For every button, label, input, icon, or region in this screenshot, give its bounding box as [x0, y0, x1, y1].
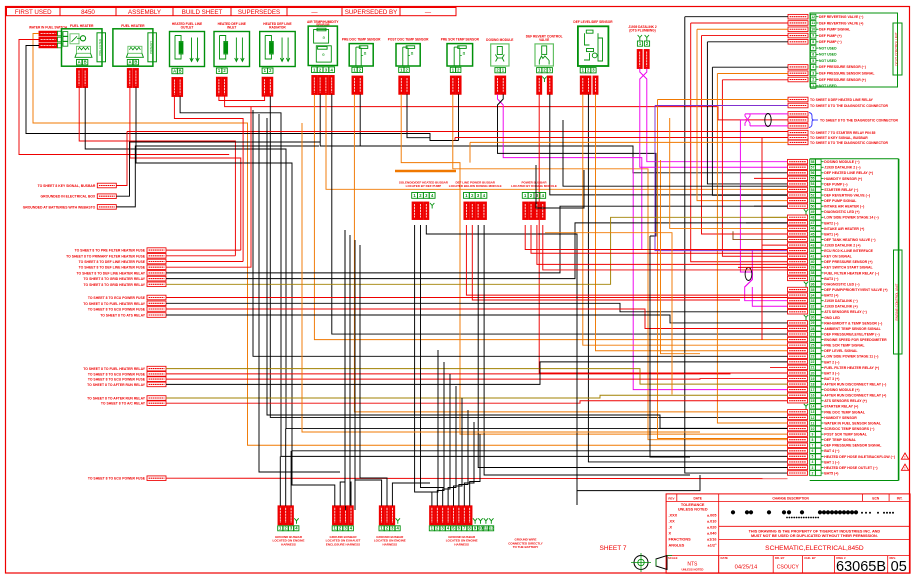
svg-text:TO SHEET 8 TO DEF LINE HEATER: TO SHEET 8 TO DEF LINE HEATER FUSE: [79, 266, 146, 270]
pre scr temp sensor: [441, 38, 480, 95]
svg-text:Ω: Ω: [411, 52, 414, 56]
svg-text:CSOUCY: CSOUCY: [777, 565, 800, 571]
wire orange C13a: [583, 94, 788, 345]
svg-text:DOSING MODULE (−): DOSING MODULE (−): [824, 160, 859, 164]
wire black gb2a: [292, 451, 335, 506]
svg-text:DEF TANK HEATING VALVE (−): DEF TANK HEATING VALVE (−): [824, 238, 875, 242]
svg-text:22: 22: [811, 360, 815, 364]
svg-text:PRE SCR TEMP SIGNAL: PRE SCR TEMP SIGNAL: [824, 344, 865, 348]
wire red C5a: [219, 96, 265, 100]
svg-text:TO SHEET 7 TO STARTER RELAY PI: TO SHEET 7 TO STARTER RELAY PIN 85: [810, 131, 875, 135]
svg-text:8: 8: [812, 40, 814, 44]
svg-text:47: 47: [811, 221, 815, 225]
heated def line radiator: [260, 22, 296, 96]
wire red C4: [174, 97, 243, 262]
svg-text:52: 52: [811, 193, 815, 197]
svg-text:04/25/14: 04/25/14: [735, 565, 758, 571]
svg-text:PRE DOC TEMP SENSOR: PRE DOC TEMP SENSOR: [342, 38, 381, 42]
svg-text:NOT USED: NOT USED: [819, 59, 837, 63]
svg-text:FIRST USED: FIRST USED: [15, 9, 52, 16]
svg-text:TO SHEET 8 TO THE DIAGNOSTIC C: TO SHEET 8 TO THE DIAGNOSTIC CONNECTOR: [810, 141, 889, 145]
svg-text:DEF PUMP (+): DEF PUMP (+): [819, 34, 842, 38]
wire brown meshAv: [733, 231, 788, 239]
svg-text:RH/HUMIDITY & TEMP SENSOR (−): RH/HUMIDITY & TEMP SENSOR (−): [824, 321, 882, 325]
svg-text:18: 18: [811, 382, 815, 386]
svg-text:DR. BY: DR. BY: [775, 556, 785, 560]
svg-text:28: 28: [811, 327, 815, 331]
svg-text:—: —: [425, 9, 432, 16]
wire orange C8a: [354, 94, 787, 412]
svg-text:41: 41: [811, 255, 815, 259]
svg-text:UNLESS NOTED: UNLESS NOTED: [678, 507, 708, 511]
wire orange RT1v: [658, 100, 788, 439]
svg-text:ECU RC0 K-LINE INTERFACE: ECU RC0 K-LINE INTERFACE: [824, 249, 873, 253]
wire black mesh8: [349, 235, 351, 515]
wire black gb4-1: [432, 350, 438, 506]
svg-text:DEF LEVEL/DEF SENSOR: DEF LEVEL/DEF SENSOR: [573, 20, 613, 24]
svg-text:A: A: [128, 60, 131, 65]
wire red bbC1: [525, 225, 787, 250]
svg-text:NOT USED: NOT USED: [819, 46, 837, 50]
svg-text:REV: REV: [668, 496, 674, 500]
wire black meshB1: [536, 165, 584, 208]
svg-text:HEATED DEF HOSE INLET/BACKFLOW: HEATED DEF HOSE INLET/BACKFLOW (−): [824, 455, 895, 459]
wire orange meshO2: [661, 160, 701, 354]
svg-text:DIAGNOSTIC LED (−): DIAGNOSTIC LED (−): [824, 282, 859, 286]
svg-text:58: 58: [811, 160, 815, 164]
svg-text:TO SHEET 8 TO PRE FILTER HEATE: TO SHEET 8 TO PRE FILTER HEATER FUSE: [75, 249, 146, 253]
svg-text:BAT 3 (−): BAT 3 (−): [824, 371, 839, 375]
sheet labels group3: [83, 295, 166, 317]
svg-text:NTS: NTS: [687, 561, 698, 567]
svg-text:Ω: Ω: [463, 52, 466, 56]
svg-text:TO SHEET 8 TO ECU POWER FUSE: TO SHEET 8 TO ECU POWER FUSE: [88, 308, 146, 312]
wire red FH1: [79, 88, 235, 256]
mid busbar C: [511, 180, 557, 219]
svg-text:HARNESS: HARNESS: [382, 542, 397, 546]
svg-text:TO SHEET 8 TO GRID HEATER RELA: TO SHEET 8 TO GRID HEATER RELAY: [84, 283, 146, 287]
wire black gb3c: [392, 483, 430, 506]
wire magenta RT3: [745, 113, 788, 115]
svg-text:FRACTIONS: FRACTIONS: [669, 537, 692, 541]
ground busbar 2: [326, 506, 361, 547]
svg-text:TO SHEET 8 TO DEF LINE HEATER: TO SHEET 8 TO DEF LINE HEATER RELAY: [77, 271, 146, 275]
svg-text:DCU5 CONTROL UNIT: DCU5 CONTROL UNIT: [895, 32, 899, 65]
svg-text:TO THE BATTERY: TO THE BATTERY: [513, 545, 539, 549]
wire black C13b: [588, 94, 787, 462]
wire black G2f: [166, 223, 788, 279]
svg-text:7: 7: [812, 46, 814, 50]
svg-text:35: 35: [811, 288, 815, 292]
svg-text:53: 53: [811, 188, 815, 192]
ground busbar 3: [374, 506, 406, 547]
svg-text:INT.: INT.: [897, 496, 903, 500]
wire black C10b: [458, 94, 460, 140]
svg-text:ASSEMBLY: ASSEMBLY: [128, 9, 161, 16]
wire black bbA2: [421, 225, 444, 488]
svg-text:KEY ON SIGNAL: KEY ON SIGNAL: [824, 255, 852, 259]
svg-text:10: 10: [811, 427, 815, 431]
wire black G4d: [166, 362, 788, 385]
wire black mesh6: [267, 118, 788, 428]
svg-text:42: 42: [811, 249, 815, 253]
svg-text:UNLESS NOTED: UNLESS NOTED: [681, 568, 703, 572]
wire black gb3b: [360, 245, 387, 506]
wire purple RT2v: [655, 106, 788, 251]
wire red G5: [166, 477, 788, 479]
svg-text:B: B: [134, 60, 137, 65]
svg-text:32: 32: [811, 305, 815, 309]
svg-text:48: 48: [811, 216, 815, 220]
svg-text:LOCATED BELOW DOSING MODULE: LOCATED BELOW DOSING MODULE: [449, 184, 502, 188]
wire black bbB3: [478, 225, 787, 468]
svg-text:BAT1 (+): BAT1 (+): [824, 232, 838, 236]
wire black gb1c: [290, 451, 292, 506]
wire black DCU5v: [707, 42, 787, 184]
wire red DCU11v: [722, 80, 787, 256]
wire red G4c: [166, 378, 788, 381]
svg-text:12: 12: [811, 15, 815, 19]
svg-text:GROUNDED AT BATTERIES WITH WEB: GROUNDED AT BATTERIES WITH WEBASTO: [23, 205, 96, 209]
wire orange meshA: [670, 118, 788, 228]
svg-text:39: 39: [811, 266, 815, 270]
svg-text:36: 36: [811, 282, 815, 286]
mid busbar B: [449, 180, 502, 219]
wire magenta C11a: [498, 94, 788, 300]
svg-text:—: —: [311, 9, 318, 16]
svg-text:POST DOC TEMP SENSOR: POST DOC TEMP SENSOR: [388, 38, 429, 42]
svg-text:HUMIDITY SENSOR: HUMIDITY SENSOR: [824, 416, 857, 420]
svg-text:TO SHEET 8 TO ECU POWER FUSE: TO SHEET 8 TO ECU POWER FUSE: [88, 477, 146, 481]
svg-text:DATE: DATE: [693, 496, 701, 500]
svg-text:DEF REVERTING VALVE (+): DEF REVERTING VALVE (+): [819, 21, 863, 25]
svg-text:37: 37: [811, 277, 815, 281]
svg-text:LOW SIDE POWER STAGE 14 (−): LOW SIDE POWER STAGE 14 (−): [824, 216, 878, 220]
wire black DCU9: [712, 66, 788, 68]
svg-text:SCALE: SCALE: [668, 556, 678, 560]
svg-text:GROUNDED IN ELECTRICAL BOX: GROUNDED IN ELECTRICAL BOX: [41, 195, 96, 199]
wire orange C7c: [326, 95, 788, 190]
svg-text:PRE SCR TEMP SENSOR: PRE SCR TEMP SENSOR: [441, 38, 480, 42]
svg-text:TO SHEET 8 TO ATS RELAY: TO SHEET 8 TO ATS RELAY: [100, 314, 146, 318]
wire black bbB4: [484, 225, 690, 475]
wire black gb2c: [345, 506, 347, 510]
svg-text:!: !: [904, 467, 905, 471]
svg-text:DEF PUMP SIGNAL: DEF PUMP SIGNAL: [824, 199, 857, 203]
svg-text:12: 12: [489, 526, 494, 531]
wire black gb1a: [279, 456, 281, 505]
svg-text:STARTER RELAY (−): STARTER RELAY (−): [824, 188, 858, 192]
svg-text:J1939 DATALINK (+): J1939 DATALINK (+): [824, 305, 857, 309]
wire black gb2d: [350, 482, 351, 506]
wire black G3d: [166, 315, 788, 323]
svg-text:HEATED DEF HOSE OUTLET (−): HEATED DEF HOSE OUTLET (−): [824, 466, 877, 470]
svg-text:13: 13: [811, 410, 815, 414]
svg-text:46: 46: [811, 227, 815, 231]
svg-text:DOSING MODULE: DOSING MODULE: [486, 38, 513, 42]
svg-text:8450: 8450: [81, 9, 95, 16]
svg-text:26: 26: [811, 338, 815, 342]
wire black bbA1: [415, 225, 432, 492]
wire orange WIF: [33, 34, 788, 446]
svg-text:ANGLES: ANGLES: [669, 543, 685, 547]
svg-text:2: 2: [812, 471, 814, 475]
wire black gb4-4: [448, 386, 456, 506]
svg-text:9: 9: [812, 432, 814, 436]
svg-text:ENCLOSURE HARNESS: ENCLOSURE HARNESS: [326, 542, 360, 546]
wire red DCU4v: [702, 36, 788, 234]
svg-text:DEF REVERTING VALVE (−): DEF REVERTING VALVE (−): [819, 15, 863, 19]
DCU5 control unit: [788, 13, 902, 88]
svg-text:05: 05: [891, 559, 907, 575]
svg-text:10: 10: [478, 526, 483, 531]
svg-text:6: 6: [812, 53, 814, 57]
svg-text:J1939 DATALINK 2 (+): J1939 DATALINK 2 (+): [824, 244, 860, 248]
wire magenta RT3x: [745, 114, 750, 126]
wire orange DCU10: [717, 73, 788, 75]
wire orange C10a: [453, 94, 788, 439]
svg-text:45: 45: [811, 232, 815, 236]
svg-text:DEF PRESSURE SENSOR (+): DEF PRESSURE SENSOR (+): [824, 260, 872, 264]
sheet reference labels top right: [788, 97, 899, 145]
wire red bbB1: [466, 225, 787, 295]
heated def line inlet: [214, 22, 250, 96]
sheet labels group4: [83, 366, 166, 405]
wire black C11b: [498, 94, 657, 236]
svg-text:AMBIENT TEMP SENSOR SIGNAL: AMBIENT TEMP SENSOR SIGNAL: [824, 327, 881, 331]
def level def sensor: [573, 20, 613, 94]
wire black mesh7: [344, 230, 346, 520]
svg-text:MUST NOT BE USED OR DUPLICATED: MUST NOT BE USED OR DUPLICATED WITHOUT T…: [751, 534, 878, 538]
wire black gb4-8: [470, 434, 480, 506]
wire red G2d: [166, 107, 251, 268]
wire red DCU2: [691, 22, 788, 24]
svg-text:7: 7: [812, 444, 814, 448]
svg-text:TO SHEET 8 TO FUEL HEATER RELA: TO SHEET 8 TO FUEL HEATER RELAY: [83, 367, 146, 371]
wire orange C9a: [401, 94, 787, 434]
svg-text:50: 50: [811, 204, 815, 208]
svg-text:±.005: ±.005: [707, 513, 716, 517]
svg-text:30: 30: [811, 316, 815, 320]
twisted pair symbol B: [745, 268, 752, 281]
wire olive G4a: [166, 369, 788, 385]
svg-text:DEF PRESSURE SENSOR SIGNAL: DEF PRESSURE SENSOR SIGNAL: [824, 444, 882, 448]
svg-text:DEF REVERTING VALVE (−): DEF REVERTING VALVE (−): [824, 193, 870, 197]
warning triangle 1: [901, 453, 908, 460]
svg-text:A: A: [78, 60, 81, 65]
svg-text:TO SHEET 8 TO ECU POWER FUSE: TO SHEET 8 TO ECU POWER FUSE: [88, 372, 146, 376]
ground wire note: [508, 538, 543, 550]
svg-text:TO SHEET 8 TO PRIMARY FILTER H: TO SHEET 8 TO PRIMARY FILTER HEATER FUSE: [66, 254, 146, 258]
twisted pair symbol A: [765, 114, 771, 127]
wire red C12a: [539, 94, 787, 373]
title header bar: [7, 8, 457, 17]
svg-text:DEF LEVEL SIGNAL: DEF LEVEL SIGNAL: [824, 349, 858, 353]
fuel heater 2: [113, 24, 156, 88]
wire orange C13c: [596, 94, 788, 350]
wire orange RT7v: [469, 142, 471, 162]
svg-text:STARTER RELAY (+): STARTER RELAY (+): [824, 405, 858, 409]
svg-text:±1/16: ±1/16: [707, 537, 716, 541]
wire black FH2: [136, 88, 788, 451]
svg-text:11: 11: [811, 421, 815, 425]
svg-text:RADIATOR: RADIATOR: [269, 26, 286, 30]
svg-text:15: 15: [811, 399, 815, 403]
svg-text:INTAKE AIR HEATER (−): INTAKE AIR HEATER (−): [824, 205, 864, 209]
svg-text:.XX: .XX: [669, 519, 676, 523]
svg-text:8: 8: [812, 438, 814, 442]
wire magenta RT3v: [740, 119, 745, 121]
svg-text:TO SHEET 8 TO DEF LINE HEATER: TO SHEET 8 TO DEF LINE HEATER FUSE: [79, 260, 146, 264]
sheet labels group2: [66, 248, 166, 287]
svg-text:SHEET 7: SHEET 7: [600, 545, 627, 552]
wire black gb3a: [355, 480, 382, 506]
svg-text:DEF PUMP/PRIORITY/VENT VALVE (: DEF PUMP/PRIORITY/VENT VALVE (+): [824, 288, 887, 292]
svg-text:PRE DOC TEMP SIGNAL: PRE DOC TEMP SIGNAL: [824, 410, 866, 414]
wire black C7b: [320, 95, 787, 173]
svg-text:38: 38: [811, 271, 815, 275]
wire magenta M4: [633, 158, 787, 390]
svg-text:TO SHEET 8 TO FUEL HEATER RELA: TO SHEET 8 TO FUEL HEATER RELAY: [83, 302, 146, 306]
svg-text:ENGINE SPEED FOR SPEEDOMETER: ENGINE SPEED FOR SPEEDOMETER: [824, 338, 887, 342]
svg-text:54: 54: [811, 182, 815, 186]
svg-text:B: B: [179, 69, 182, 74]
wire black gb1b: [285, 429, 287, 506]
svg-text:A: A: [173, 69, 176, 74]
svg-text:4: 4: [812, 65, 814, 69]
svg-text:±.020: ±.020: [707, 525, 716, 529]
wire black WIF: [26, 46, 459, 141]
wire red bbC2: [531, 225, 788, 253]
wire black gb4-3: [443, 374, 450, 506]
warning triangle 2: [901, 464, 908, 471]
wire magenta M3: [740, 120, 752, 287]
svg-text:TO SHEET 8 TO ECU POWER FUSE: TO SHEET 8 TO ECU POWER FUSE: [88, 296, 146, 300]
svg-text:VALVE: VALVE: [539, 38, 549, 42]
wire red WIF: [19, 40, 229, 155]
wire black mesh9: [354, 240, 356, 510]
svg-text:40: 40: [811, 260, 815, 264]
wire red RT6v: [454, 138, 456, 141]
wire red RT5v: [116, 132, 127, 186]
svg-text:34: 34: [811, 293, 815, 297]
svg-text:TO SHEET 8 DEF HEATED LINE REL: TO SHEET 8 DEF HEATED LINE RELAY: [810, 98, 874, 102]
wire olive G2g: [166, 217, 788, 284]
wire black G3b: [166, 303, 788, 312]
wire red G2c: [166, 261, 243, 263]
wire black bbA3: [426, 225, 577, 505]
wire magenta C14b: [640, 69, 788, 168]
water-in-fuel switch connector: [29, 26, 68, 48]
fuel heater 1: [62, 24, 106, 88]
wire magenta RT3b: [750, 125, 788, 127]
wire orange mesh5: [302, 123, 700, 432]
svg-text:PRE-FILTER: PRE-FILTER: [98, 39, 102, 56]
svg-text:ECN: ECN: [872, 496, 879, 500]
svg-text:DATE: DATE: [721, 556, 729, 560]
svg-text:TO SHEET 8 TO THE DIAGNOSTIC C: TO SHEET 8 TO THE DIAGNOSTIC CONNECTOR: [810, 104, 889, 108]
ground busbar 4: [429, 506, 494, 547]
svg-text:BUILD SHEET: BUILD SHEET: [182, 9, 223, 16]
svg-text:SCHEMATIC,ELECTRICAL,845D: SCHEMATIC,ELECTRICAL,845D: [765, 545, 864, 552]
svg-text:BAT 3 (+): BAT 3 (+): [824, 377, 839, 381]
svg-text:2: 2: [812, 78, 814, 82]
svg-text:TO SHEET 8 KEY SIGNAL, BUSBAR: TO SHEET 8 KEY SIGNAL, BUSBAR: [810, 136, 868, 140]
svg-text:FUEL HEATER: FUEL HEATER: [70, 24, 94, 28]
svg-text:BAT2 (+): BAT2 (+): [824, 294, 838, 298]
pre doc temp sensor: [342, 38, 381, 95]
svg-text:LOW SIDE POWER STAGE 11 (−): LOW SIDE POWER STAGE 11 (−): [824, 355, 878, 359]
mid busbar A: [399, 180, 449, 219]
wire red G3c: [166, 309, 788, 329]
svg-text:27: 27: [811, 332, 815, 336]
svg-text:THIS DRAWING IS THE PROPERTY O: THIS DRAWING IS THE PROPERTY OF TIGERCAT…: [749, 530, 881, 534]
wire black DCU1: [685, 16, 788, 18]
svg-text:10: 10: [811, 27, 815, 31]
svg-text:11: 11: [811, 21, 815, 25]
wire black gb4-5: [454, 398, 463, 506]
svg-text:TO SHEET 8 TO AFTER RUN RELAY: TO SHEET 8 TO AFTER RUN RELAY: [87, 383, 146, 387]
svg-text:1: 1: [812, 84, 814, 88]
wire red C5b: [225, 96, 788, 120]
svg-text:±.040: ±.040: [707, 531, 716, 535]
svg-text:HUMIDITY SENSOR (+): HUMIDITY SENSOR (+): [824, 177, 862, 181]
svg-text:DEF PUMP (−): DEF PUMP (−): [819, 40, 842, 44]
svg-text:5: 5: [812, 455, 814, 459]
svg-text:FUEL FILTER HEATER RELAY (−): FUEL FILTER HEATER RELAY (−): [824, 271, 879, 275]
wire black gb4-2: [437, 362, 444, 506]
svg-text:±.010: ±.010: [707, 519, 716, 523]
wire orange C7a: [314, 95, 787, 340]
svg-text:19: 19: [811, 377, 815, 381]
svg-text:DEF PRESSURE SENSOR (+): DEF PRESSURE SENSOR (+): [819, 78, 866, 82]
wire orange RT7: [470, 141, 788, 143]
wire black C8b: [359, 94, 361, 146]
wire black gb2b: [340, 230, 345, 506]
svg-text:DEF PRESSURE SENSOR SIGNAL: DEF PRESSURE SENSOR SIGNAL: [819, 72, 874, 76]
wire black G1b: [116, 142, 320, 196]
wire black C9b: [407, 94, 430, 137]
wire orange DCU10v: [717, 74, 787, 424]
svg-text:33: 33: [811, 299, 815, 303]
wire black meshB6: [650, 236, 690, 457]
svg-text:OUTLET: OUTLET: [181, 26, 194, 30]
wire black meshB3: [563, 120, 788, 186]
svg-text:SUPERSEDED BY: SUPERSEDED BY: [345, 9, 398, 16]
svg-text:CHK. BY: CHK. BY: [804, 556, 816, 560]
engine control unit: [738, 159, 902, 481]
wire purple RT2: [655, 105, 788, 107]
svg-text:TO SHEET 8 TO THE DIAGNOSTIC C: TO SHEET 8 TO THE DIAGNOSTIC CONNECTOR: [820, 118, 899, 122]
svg-text:6: 6: [812, 449, 814, 453]
title block: [666, 494, 910, 575]
svg-text:23: 23: [811, 355, 815, 359]
svg-text:63065B: 63065B: [836, 559, 886, 575]
wire magenta RT3x2: [745, 114, 750, 126]
wire black DCU1v: [685, 17, 788, 473]
svg-text:.XXX: .XXX: [669, 513, 678, 517]
svg-text:HARNESS: HARNESS: [454, 542, 469, 546]
wire black mesh2: [253, 110, 788, 356]
wire black C4: [180, 97, 787, 457]
svg-text:21: 21: [811, 366, 815, 370]
svg-text:TO SHEET 8 TO AFTER RUN RELAY: TO SHEET 8 TO AFTER RUN RELAY: [87, 397, 146, 401]
wire red G4b: [166, 372, 788, 375]
wire thick orange segment: [395, 170, 456, 173]
wire red bbC4: [543, 225, 788, 270]
wire black C6: [270, 96, 787, 417]
def revert control valve: [526, 34, 563, 94]
